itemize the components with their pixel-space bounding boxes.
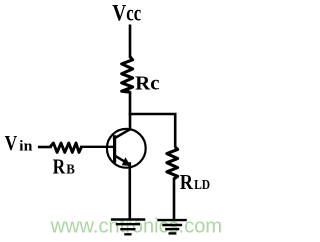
transistor Q1 circle [107, 129, 146, 168]
svg-text:B: B [66, 161, 75, 176]
svg-text:V: V [112, 1, 126, 26]
wire RB to base [81, 146, 113, 148]
wire Vin lead [39, 146, 50, 149]
transistor Q1 collector stroke [114, 129, 130, 138]
svg-text:LD: LD [194, 178, 210, 193]
svg-text:V: V [5, 133, 18, 155]
svg-text:c: c [134, 1, 141, 26]
wire Rc to collector node [129, 93, 132, 130]
wire RLD to ground [173, 179, 176, 219]
svg-text:c: c [126, 1, 133, 26]
wire node to RLD branch [130, 114, 175, 146]
svg-text:R: R [180, 170, 194, 194]
resistor RLD zigzag [167, 147, 178, 179]
ground (RLD) [157, 220, 187, 233]
svg-text:R: R [53, 156, 67, 178]
resistor RB zigzag [50, 143, 82, 152]
ground (emitter) [111, 220, 145, 235]
svg-text:in: in [19, 138, 33, 154]
svg-text:Rc: Rc [135, 73, 159, 95]
resistor Rc zigzag [122, 57, 133, 93]
wire Vcc to Rc [129, 26, 132, 57]
transistor Q1 emitter stroke [115, 156, 128, 164]
transistor Q1 emitter arrowhead [122, 157, 131, 166]
wire emitter to ground [129, 164, 132, 219]
transistor Q1 base bar [113, 137, 116, 161]
